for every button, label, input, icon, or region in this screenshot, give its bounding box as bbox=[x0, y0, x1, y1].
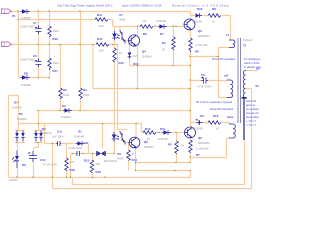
wire R18 47k vertical bbox=[66, 144, 68, 178]
node dots y162.5 bbox=[135, 162, 136, 163]
svg-text:R10: R10 bbox=[97, 37, 103, 41]
svg-text:D2: D2 bbox=[42, 127, 46, 131]
svg-text:1N4148: 1N4148 bbox=[74, 135, 84, 139]
svg-text:4N35: 4N35 bbox=[117, 157, 124, 161]
resistor R19 47K bbox=[90, 160, 93, 173]
transformer T1 secondary winding bbox=[242, 71, 247, 98]
node dot y123.5 bbox=[102, 123, 103, 124]
resistor R8 10 horizontal bbox=[208, 14, 221, 17]
diode D1 1N4148 bbox=[76, 141, 84, 145]
wire Q4 collector riser bbox=[137, 27, 139, 35]
svg-text:R8: R8 bbox=[212, 7, 216, 11]
capacitor C8 220uF 350V bbox=[35, 59, 42, 68]
svg-text:Drive KM stranded: Drive KM stranded bbox=[212, 57, 236, 61]
diode D6 1N5408 bbox=[21, 9, 31, 14]
wire P2 line y44.5 bbox=[10, 44, 118, 46]
svg-text:R6: R6 bbox=[195, 50, 199, 54]
resistor R14 47 vertical bbox=[127, 150, 130, 160]
node dots base2 line bbox=[158, 132, 159, 133]
capacitor C10 4.7uF 100V bbox=[28, 151, 37, 162]
svg-text:47K: 47K bbox=[70, 160, 75, 164]
connector P1 bbox=[2, 9, 12, 14]
svg-text:C6: C6 bbox=[200, 114, 204, 118]
wire C10 cap bottom bbox=[33, 162, 35, 178]
svg-text:= 7F x 7: = 7F x 7 bbox=[246, 123, 257, 127]
wire feedback cap line y80 bbox=[191, 80, 228, 82]
svg-text:215K: 215K bbox=[83, 93, 90, 97]
wire lower snubber y122 bbox=[191, 123, 230, 125]
svg-text:Q4: Q4 bbox=[142, 50, 146, 54]
svg-text:150K: 150K bbox=[53, 29, 60, 33]
wire y123.5 bbox=[19, 124, 142, 133]
wire diac line y153.5 bbox=[71, 142, 115, 178]
diode D7 1N4148 bbox=[158, 24, 167, 28]
wire vertical x64 bleeder bbox=[60, 45, 62, 111]
svg-text:D8: D8 bbox=[24, 72, 28, 76]
svg-text:10: 10 bbox=[212, 20, 216, 24]
svg-text:D10: D10 bbox=[197, 7, 203, 11]
svg-text:1N4004: 1N4004 bbox=[17, 117, 27, 121]
svg-text:D7: D7 bbox=[160, 32, 164, 36]
wire snubber line A to x218 bbox=[191, 48, 228, 98]
wire clamp pair1 riser bbox=[15, 124, 25, 178]
wire winding3 return y157 bbox=[191, 139, 230, 158]
resistor R11 10K horizontal bbox=[95, 18, 108, 21]
wire return x244 bbox=[73, 140, 245, 185]
wire Q6 emitter x190 low bbox=[190, 139, 192, 163]
svg-text:1 ohm 5W: 1 ohm 5W bbox=[195, 43, 208, 47]
svg-text:1N4148: 1N4148 bbox=[156, 19, 166, 23]
svg-text:1: 1 bbox=[4, 10, 6, 14]
svg-text:MPSW42: MPSW42 bbox=[198, 141, 210, 145]
resistor R3 220K bbox=[79, 88, 82, 99]
svg-text:R13: R13 bbox=[145, 127, 151, 131]
svg-text:T1: T1 bbox=[243, 44, 247, 48]
svg-text:R5: R5 bbox=[168, 143, 172, 147]
wire y162.5 bbox=[136, 162, 191, 164]
node dots y170.5 bbox=[135, 170, 136, 171]
wire snubber line top to transformer primary bbox=[191, 16, 231, 41]
resistor R16 150K bbox=[48, 26, 51, 36]
transformer T1 feedback winding bbox=[227, 80, 233, 97]
node dots y68.5 bbox=[137, 65, 138, 66]
wire R11 out corner to opto LED bbox=[108, 20, 120, 32]
svg-text:220uF 350V: 220uF 350V bbox=[20, 58, 35, 62]
wire AC line top from P1 to Q3 collector corner bbox=[10, 12, 191, 16]
capacitor C9 .02uF 400V bbox=[76, 151, 80, 156]
svg-text:D4: D4 bbox=[14, 101, 18, 105]
capacitor C6 on y122 bbox=[195, 119, 203, 125]
svg-text:D3: D3 bbox=[62, 104, 66, 108]
svg-text:Q6: Q6 bbox=[198, 136, 202, 140]
svg-text:C7: C7 bbox=[33, 21, 37, 25]
svg-text:R2: R2 bbox=[63, 88, 67, 92]
secondary HV return dark wire bbox=[242, 98, 248, 140]
diac D13 bbox=[97, 151, 106, 156]
svg-text:47K: 47K bbox=[96, 162, 101, 166]
node dot x218 bbox=[217, 56, 218, 57]
node dots clamp ties bbox=[16, 142, 17, 143]
wire vertical x80 bleeder bbox=[80, 12, 82, 111]
node dots top AC line bbox=[17, 10, 18, 11]
optocoupler U7 4N35 LED bbox=[112, 31, 119, 40]
svg-text:2: 2 bbox=[4, 43, 6, 47]
svg-text:1N5408: 1N5408 bbox=[21, 83, 31, 87]
capacitor C11 1uF 250V bbox=[56, 141, 61, 146]
clamp diode D4a bbox=[15, 131, 19, 142]
svg-text:1N4148: 1N4148 bbox=[12, 106, 22, 110]
svg-text:R17: R17 bbox=[53, 69, 59, 73]
node dots y78 bbox=[37, 77, 38, 78]
wire y110.5 with D3 bbox=[39, 110, 191, 112]
svg-text:R4: R4 bbox=[162, 41, 166, 45]
optocoupler U8 4N35 phototransistor bbox=[120, 131, 125, 145]
node dots ground rail bbox=[16, 176, 17, 177]
wire y143.5 trigger line bbox=[45, 124, 89, 154]
node dot x18 y19.5 bbox=[17, 19, 18, 20]
zener D12 on Q4 emitter bbox=[128, 53, 132, 59]
optocoupler U8 4N35 LED bbox=[112, 132, 119, 142]
node dots emitter chain bbox=[189, 56, 190, 57]
svg-text:C11: C11 bbox=[57, 130, 63, 134]
wire Q6 base line y132.5 bbox=[142, 132, 185, 134]
wire T1 emitter to Q4 base bbox=[125, 41, 131, 44]
svg-text:MPSW42: MPSW42 bbox=[198, 34, 210, 38]
transformer T1 primary winding top bbox=[229, 40, 235, 48]
resistor R2 220K bbox=[59, 88, 62, 99]
svg-text:D1: D1 bbox=[78, 130, 82, 134]
resistor R10 10K horizontal bbox=[96, 43, 109, 46]
svg-text:2K: 2K bbox=[181, 144, 185, 148]
svg-text:220uF 350V: 220uF 350V bbox=[20, 25, 35, 29]
svg-text:1N4148: 1N4148 bbox=[158, 137, 168, 141]
resistor R12 1K vertical bbox=[113, 48, 116, 62]
svg-text:D13: D13 bbox=[84, 159, 90, 163]
wire R19 47k vertical bbox=[92, 154, 94, 178]
wire rail y19.5 to R11 bbox=[19, 19, 96, 21]
transistor Q4 2N3904 bbox=[128, 35, 140, 47]
wire T2 emitter to Q5 base bbox=[125, 141, 129, 144]
svg-text:1N5408: 1N5408 bbox=[21, 16, 31, 20]
svg-text:D12: D12 bbox=[133, 62, 139, 66]
svg-text:150K: 150K bbox=[53, 61, 60, 65]
zener D10 1N5248 bbox=[196, 13, 203, 17]
wire vertical x18 bbox=[9, 12, 19, 178]
resistor R18 47K bbox=[65, 158, 68, 171]
svg-text:Q5: Q5 bbox=[144, 140, 148, 144]
svg-text:47: 47 bbox=[132, 152, 136, 156]
svg-text:1 ohm 5W: 1 ohm 5W bbox=[196, 147, 209, 151]
svg-text:L1: L1 bbox=[226, 33, 230, 37]
svg-text:4.7uF 100V: 4.7uF 100V bbox=[43, 163, 57, 167]
wire Q3 emitter chain x190 bbox=[190, 30, 192, 123]
svg-text:R16: R16 bbox=[53, 37, 59, 41]
svg-text:C8: C8 bbox=[33, 54, 37, 58]
svg-text:2K: 2K bbox=[162, 48, 166, 52]
svg-text:Flyback: Flyback bbox=[243, 38, 253, 42]
wire primary bottom bbox=[219, 47, 230, 49]
svg-text:R15: R15 bbox=[213, 114, 219, 118]
svg-text:HV: HV bbox=[256, 67, 260, 71]
resistor R6 1 ohm 5W vertical bbox=[189, 38, 192, 52]
svg-text:R9: R9 bbox=[143, 32, 147, 36]
transformer T1 drive winding bottom bbox=[229, 124, 235, 138]
svg-text:Input: 120VAC 50/60 Hz ~0.5A: Input: 120VAC 50/60 Hz ~0.5A bbox=[122, 4, 161, 8]
clamp diode D5a bbox=[34, 131, 38, 142]
node dot y157 bbox=[189, 156, 190, 157]
transformer T1 core bbox=[238, 38, 241, 123]
svg-text:D5: D5 bbox=[19, 112, 23, 116]
svg-text:R18: R18 bbox=[70, 168, 76, 172]
wire doubler return y78 with D8 bbox=[19, 77, 50, 79]
svg-text:1N4742: 1N4742 bbox=[42, 131, 52, 135]
svg-text:R14: R14 bbox=[132, 158, 138, 162]
wire secondary HV out bbox=[246, 70, 258, 72]
clamp diode D5b bbox=[39, 131, 43, 142]
svg-text:20 3 turns expanded, spaced: 20 3 turns expanded, spaced bbox=[196, 100, 233, 104]
svg-text:2N3904: 2N3904 bbox=[144, 145, 154, 149]
svg-text:4N35: 4N35 bbox=[119, 18, 126, 22]
capacitor C5 .47uF 250V bbox=[201, 77, 208, 84]
svg-text:1uF 250V: 1uF 250V bbox=[52, 135, 64, 139]
wire secondary tap 4V bbox=[246, 88, 252, 90]
svg-text:C10: C10 bbox=[40, 158, 46, 162]
svg-text:R12: R12 bbox=[119, 61, 125, 65]
resistor R13 1K horizontal bottom bbox=[143, 131, 156, 134]
svg-text:215K: 215K bbox=[63, 93, 70, 97]
wire vertical x96 bbox=[93, 45, 103, 149]
svg-text:Q3: Q3 bbox=[198, 29, 202, 33]
svg-text:D9: D9 bbox=[22, 163, 26, 167]
wire return x252 bbox=[53, 89, 252, 189]
wire clamp pair2 riser bbox=[34, 111, 44, 152]
diode D3 1N4004 on y110.5 bbox=[63, 108, 72, 112]
wire Q4 emitter riser bbox=[130, 41, 138, 89]
wire Q5 emitter bbox=[135, 124, 138, 171]
node dots diac line bbox=[72, 153, 73, 154]
wire vertical x113 opto chain bbox=[114, 40, 116, 133]
svg-text:base: base bbox=[227, 115, 234, 119]
clamp diode D4b bbox=[21, 131, 25, 142]
wire y88.5 bbox=[93, 88, 191, 90]
svg-text:1K: 1K bbox=[143, 19, 147, 23]
transistor Q6 MPSW42 bbox=[185, 127, 196, 139]
svg-text:.47uF 250V: .47uF 250V bbox=[197, 85, 211, 89]
diode D11 1N4148 bottom bbox=[162, 130, 171, 134]
svg-text:4V: 4V bbox=[255, 84, 259, 88]
capacitor C7 220uF 350V bbox=[35, 26, 42, 35]
svg-text:C9: C9 bbox=[84, 141, 88, 145]
node dots y44.5 line bbox=[37, 44, 38, 45]
wire Q6 collector stub bbox=[190, 123, 192, 128]
shunt reg D9 bbox=[12, 151, 19, 169]
wire Q4 collector line y26 bbox=[113, 26, 185, 28]
resistor R5 2K vertical bottom bbox=[175, 141, 178, 153]
svg-text:2N3904: 2N3904 bbox=[142, 55, 152, 59]
svg-text:P1: P1 bbox=[12, 14, 16, 18]
resistor R7b 1 ohm 5W bottom bbox=[189, 140, 192, 153]
resistor R15 10 horizontal bottom bbox=[208, 121, 221, 124]
resistor R9 1K horizontal bbox=[140, 25, 153, 28]
node dots y110.5 bbox=[59, 110, 60, 111]
wire R4 2k top bbox=[173, 27, 175, 66]
svg-text:U8: U8 bbox=[117, 152, 121, 156]
wire y68.5 bbox=[130, 65, 191, 67]
svg-text:10K: 10K bbox=[99, 49, 104, 53]
svg-text:C5: C5 bbox=[201, 73, 205, 77]
wire R5 2k bottom vertical bbox=[176, 133, 178, 163]
svg-text:.02uF 400V: .02uF 400V bbox=[68, 146, 82, 150]
wire R14 base res vertical bbox=[128, 143, 130, 171]
transistor Q3 MPSW42 bbox=[184, 19, 195, 31]
wire vertical x116 to opto2 bbox=[118, 45, 127, 132]
svg-text:LM431: LM431 bbox=[9, 178, 18, 182]
resistor R4 2K vertical bbox=[172, 37, 175, 50]
svg-text:4V7: 4V7 bbox=[133, 54, 138, 58]
svg-text:R3: R3 bbox=[83, 88, 87, 92]
optocoupler U7 4N35 phototransistor bbox=[120, 30, 125, 44]
svg-text:1K: 1K bbox=[119, 51, 123, 55]
wire ground rail y177 bbox=[9, 177, 191, 179]
svg-text:1N4004: 1N4004 bbox=[61, 115, 71, 119]
svg-text:m2: m2 bbox=[224, 74, 229, 78]
diode D8 1N5408 bbox=[21, 75, 31, 80]
svg-text:Drive KM stranded: Drive KM stranded bbox=[210, 107, 234, 111]
svg-text:.1uF 5248: .1uF 5248 bbox=[190, 127, 203, 131]
svg-text:MAC97A6: MAC97A6 bbox=[104, 159, 117, 163]
svg-text:R7: R7 bbox=[196, 153, 200, 157]
wire vertical x49 through R16 R17 bbox=[49, 12, 51, 78]
svg-text:Gas Tube Sign Power Supply, Mo: Gas Tube Sign Power Supply, Model 220-C bbox=[57, 4, 113, 8]
svg-text:U7: U7 bbox=[119, 13, 123, 17]
svg-text:R11: R11 bbox=[97, 13, 103, 17]
transistor Q5 2N3904 bbox=[129, 137, 140, 149]
resistor R17 150K bbox=[48, 58, 51, 70]
svg-text:1N5248: 1N5248 bbox=[192, 20, 202, 24]
svg-text:R19: R19 bbox=[96, 170, 102, 174]
node dots y26 base line bbox=[137, 25, 138, 26]
connector P2 bbox=[2, 42, 12, 47]
svg-text:10K: 10K bbox=[99, 24, 104, 28]
svg-text:D11: D11 bbox=[160, 127, 166, 131]
svg-text:10: 10 bbox=[216, 127, 220, 131]
wire y170.5 bbox=[136, 171, 191, 178]
wire vertical x38 through C7 C8 bbox=[38, 12, 40, 78]
